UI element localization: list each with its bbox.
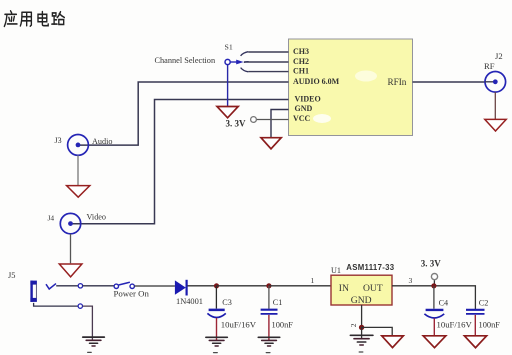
junction at C3 xyxy=(214,283,219,288)
switch S1 xyxy=(225,43,249,106)
svg-text:10uF/16V: 10uF/16V xyxy=(221,320,257,330)
ground (J5, earth) xyxy=(83,337,105,352)
svg-text:100nF: 100nF xyxy=(479,320,501,329)
wire diode to C3 node xyxy=(188,285,217,287)
switch Power On xyxy=(114,282,150,298)
wire CH1 stub xyxy=(248,71,288,73)
svg-text:3: 3 xyxy=(409,276,413,285)
wire 3.3V stub xyxy=(433,280,435,286)
svg-text:VCC: VCC xyxy=(293,114,311,123)
capacitor C1 xyxy=(261,286,294,340)
wire RFin: IC to J2 xyxy=(413,81,486,83)
wire U1 GND pin 2 xyxy=(361,305,363,328)
ground (J2, triangle) xyxy=(485,119,506,131)
svg-text:RFIn: RFIn xyxy=(388,77,407,87)
svg-text:1: 1 xyxy=(311,276,315,285)
svg-text:C2: C2 xyxy=(479,299,489,308)
char 电 xyxy=(38,12,48,26)
svg-text:Power On: Power On xyxy=(114,288,150,298)
char 路 xyxy=(52,12,64,25)
char 应 xyxy=(4,11,17,27)
wire CH3 stub xyxy=(248,51,288,53)
junction at U1 GND xyxy=(359,325,364,330)
svg-text:Channel Selection: Channel Selection xyxy=(155,56,216,65)
IC block (RF modulator) xyxy=(289,39,413,136)
ground (J3, triangle) xyxy=(67,186,90,198)
svg-text:100nF: 100nF xyxy=(272,321,294,330)
capacitor C4 xyxy=(424,286,472,336)
svg-text:1N4001: 1N4001 xyxy=(176,297,203,306)
svg-text:U1: U1 xyxy=(331,266,341,275)
wire C3 node to C1 node xyxy=(217,285,269,287)
ground (J4, triangle) xyxy=(59,264,82,277)
ground (U1, earth) xyxy=(350,327,373,352)
svg-text:RF: RF xyxy=(484,61,495,71)
svg-text:J3: J3 xyxy=(55,136,62,145)
ground (C3, earth) xyxy=(206,337,227,352)
wire GND pin of IC xyxy=(271,110,289,138)
svg-text:C3: C3 xyxy=(222,298,232,307)
title 应用电路 xyxy=(4,11,64,27)
svg-text:Audio: Audio xyxy=(92,137,112,146)
svg-text:S1: S1 xyxy=(225,43,233,52)
connector J5 power jack xyxy=(8,271,92,340)
svg-text:2: 2 xyxy=(349,323,358,327)
ground (S1, triangle) xyxy=(217,107,238,118)
connector J4 Video xyxy=(48,213,107,264)
svg-text:10uF/16V: 10uF/16V xyxy=(437,319,473,329)
svg-text:ASM1117-33: ASM1117-33 xyxy=(346,263,394,272)
wire CH2 stub xyxy=(244,61,289,63)
wire C1 node to U1 pin1 xyxy=(269,285,331,287)
wire switch to diode xyxy=(134,285,175,287)
char 用 xyxy=(20,12,31,26)
wire VCC pin of IC xyxy=(256,119,288,121)
connector J2 RF xyxy=(484,51,506,119)
svg-text:3. 3V: 3. 3V xyxy=(226,119,247,129)
svg-text:AUDIO 6.0M: AUDIO 6.0M xyxy=(293,77,340,86)
svg-text:CH2: CH2 xyxy=(293,57,309,66)
net port 3.3V circle (output) xyxy=(431,274,437,280)
ground (U1 right, triangle) xyxy=(382,336,404,348)
svg-text:GND: GND xyxy=(351,295,372,306)
svg-text:CH1: CH1 xyxy=(293,67,309,76)
wire U1 pin3 to C2 xyxy=(392,286,475,309)
svg-text:J2: J2 xyxy=(495,51,503,61)
svg-text:CH3: CH3 xyxy=(293,47,309,56)
wire AUDIO net: IC to J3 xyxy=(78,82,289,145)
svg-text:J5: J5 xyxy=(8,271,15,280)
svg-text:Video: Video xyxy=(87,213,107,222)
node (jack top contact) xyxy=(78,284,82,288)
connector J3 Audio xyxy=(55,135,113,186)
ground (IC GND pin, triangle) xyxy=(261,138,281,149)
wire U1 GND to right triangle ground xyxy=(362,327,393,335)
ground (C1, earth) xyxy=(258,337,279,352)
capacitor C3 xyxy=(207,286,256,340)
regulator U1 ASM1117-33 xyxy=(331,263,395,306)
svg-text:C4: C4 xyxy=(439,299,449,308)
ground (C2, triangle) xyxy=(464,336,486,348)
capacitor C2 xyxy=(466,299,500,336)
junction at C1 xyxy=(266,283,271,288)
diode 1N4001 xyxy=(175,280,203,306)
svg-text:3. 3V: 3. 3V xyxy=(421,258,442,268)
svg-text:GND: GND xyxy=(295,104,313,113)
ground (C4, triangle) xyxy=(423,336,446,348)
net port 3.3V circle at VCC xyxy=(251,117,257,123)
svg-text:VIDEO: VIDEO xyxy=(295,95,321,104)
svg-text:C1: C1 xyxy=(273,298,283,307)
wire VIDEO net: IC to J4 xyxy=(71,100,289,224)
junction at C4 xyxy=(431,283,436,288)
wire jack to power switch xyxy=(56,285,78,287)
svg-text:J4: J4 xyxy=(48,214,55,223)
svg-text:IN: IN xyxy=(339,283,349,294)
svg-text:OUT: OUT xyxy=(363,283,383,294)
